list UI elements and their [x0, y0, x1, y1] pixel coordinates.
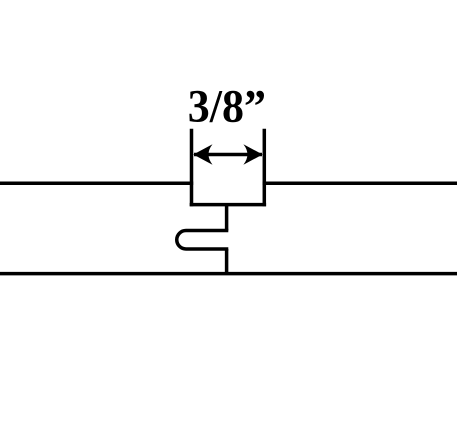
right arrowhead	[243, 144, 262, 164]
seam lower vertical	[225, 249, 229, 274]
top surface line, right segment	[263, 182, 457, 186]
seam upper vertical	[225, 205, 229, 231]
bottom surface line	[0, 272, 457, 276]
left arrowhead	[193, 144, 212, 164]
recess bottom line	[190, 203, 266, 207]
dimension arrow shaft	[194, 153, 262, 157]
svg-text:3/8”: 3/8”	[188, 80, 266, 132]
tongue-groove profile (upper edge, rounded end, lower edge)	[177, 231, 229, 250]
top surface line, left segment	[0, 182, 193, 186]
right extension line	[263, 129, 267, 207]
left extension line	[190, 129, 194, 207]
